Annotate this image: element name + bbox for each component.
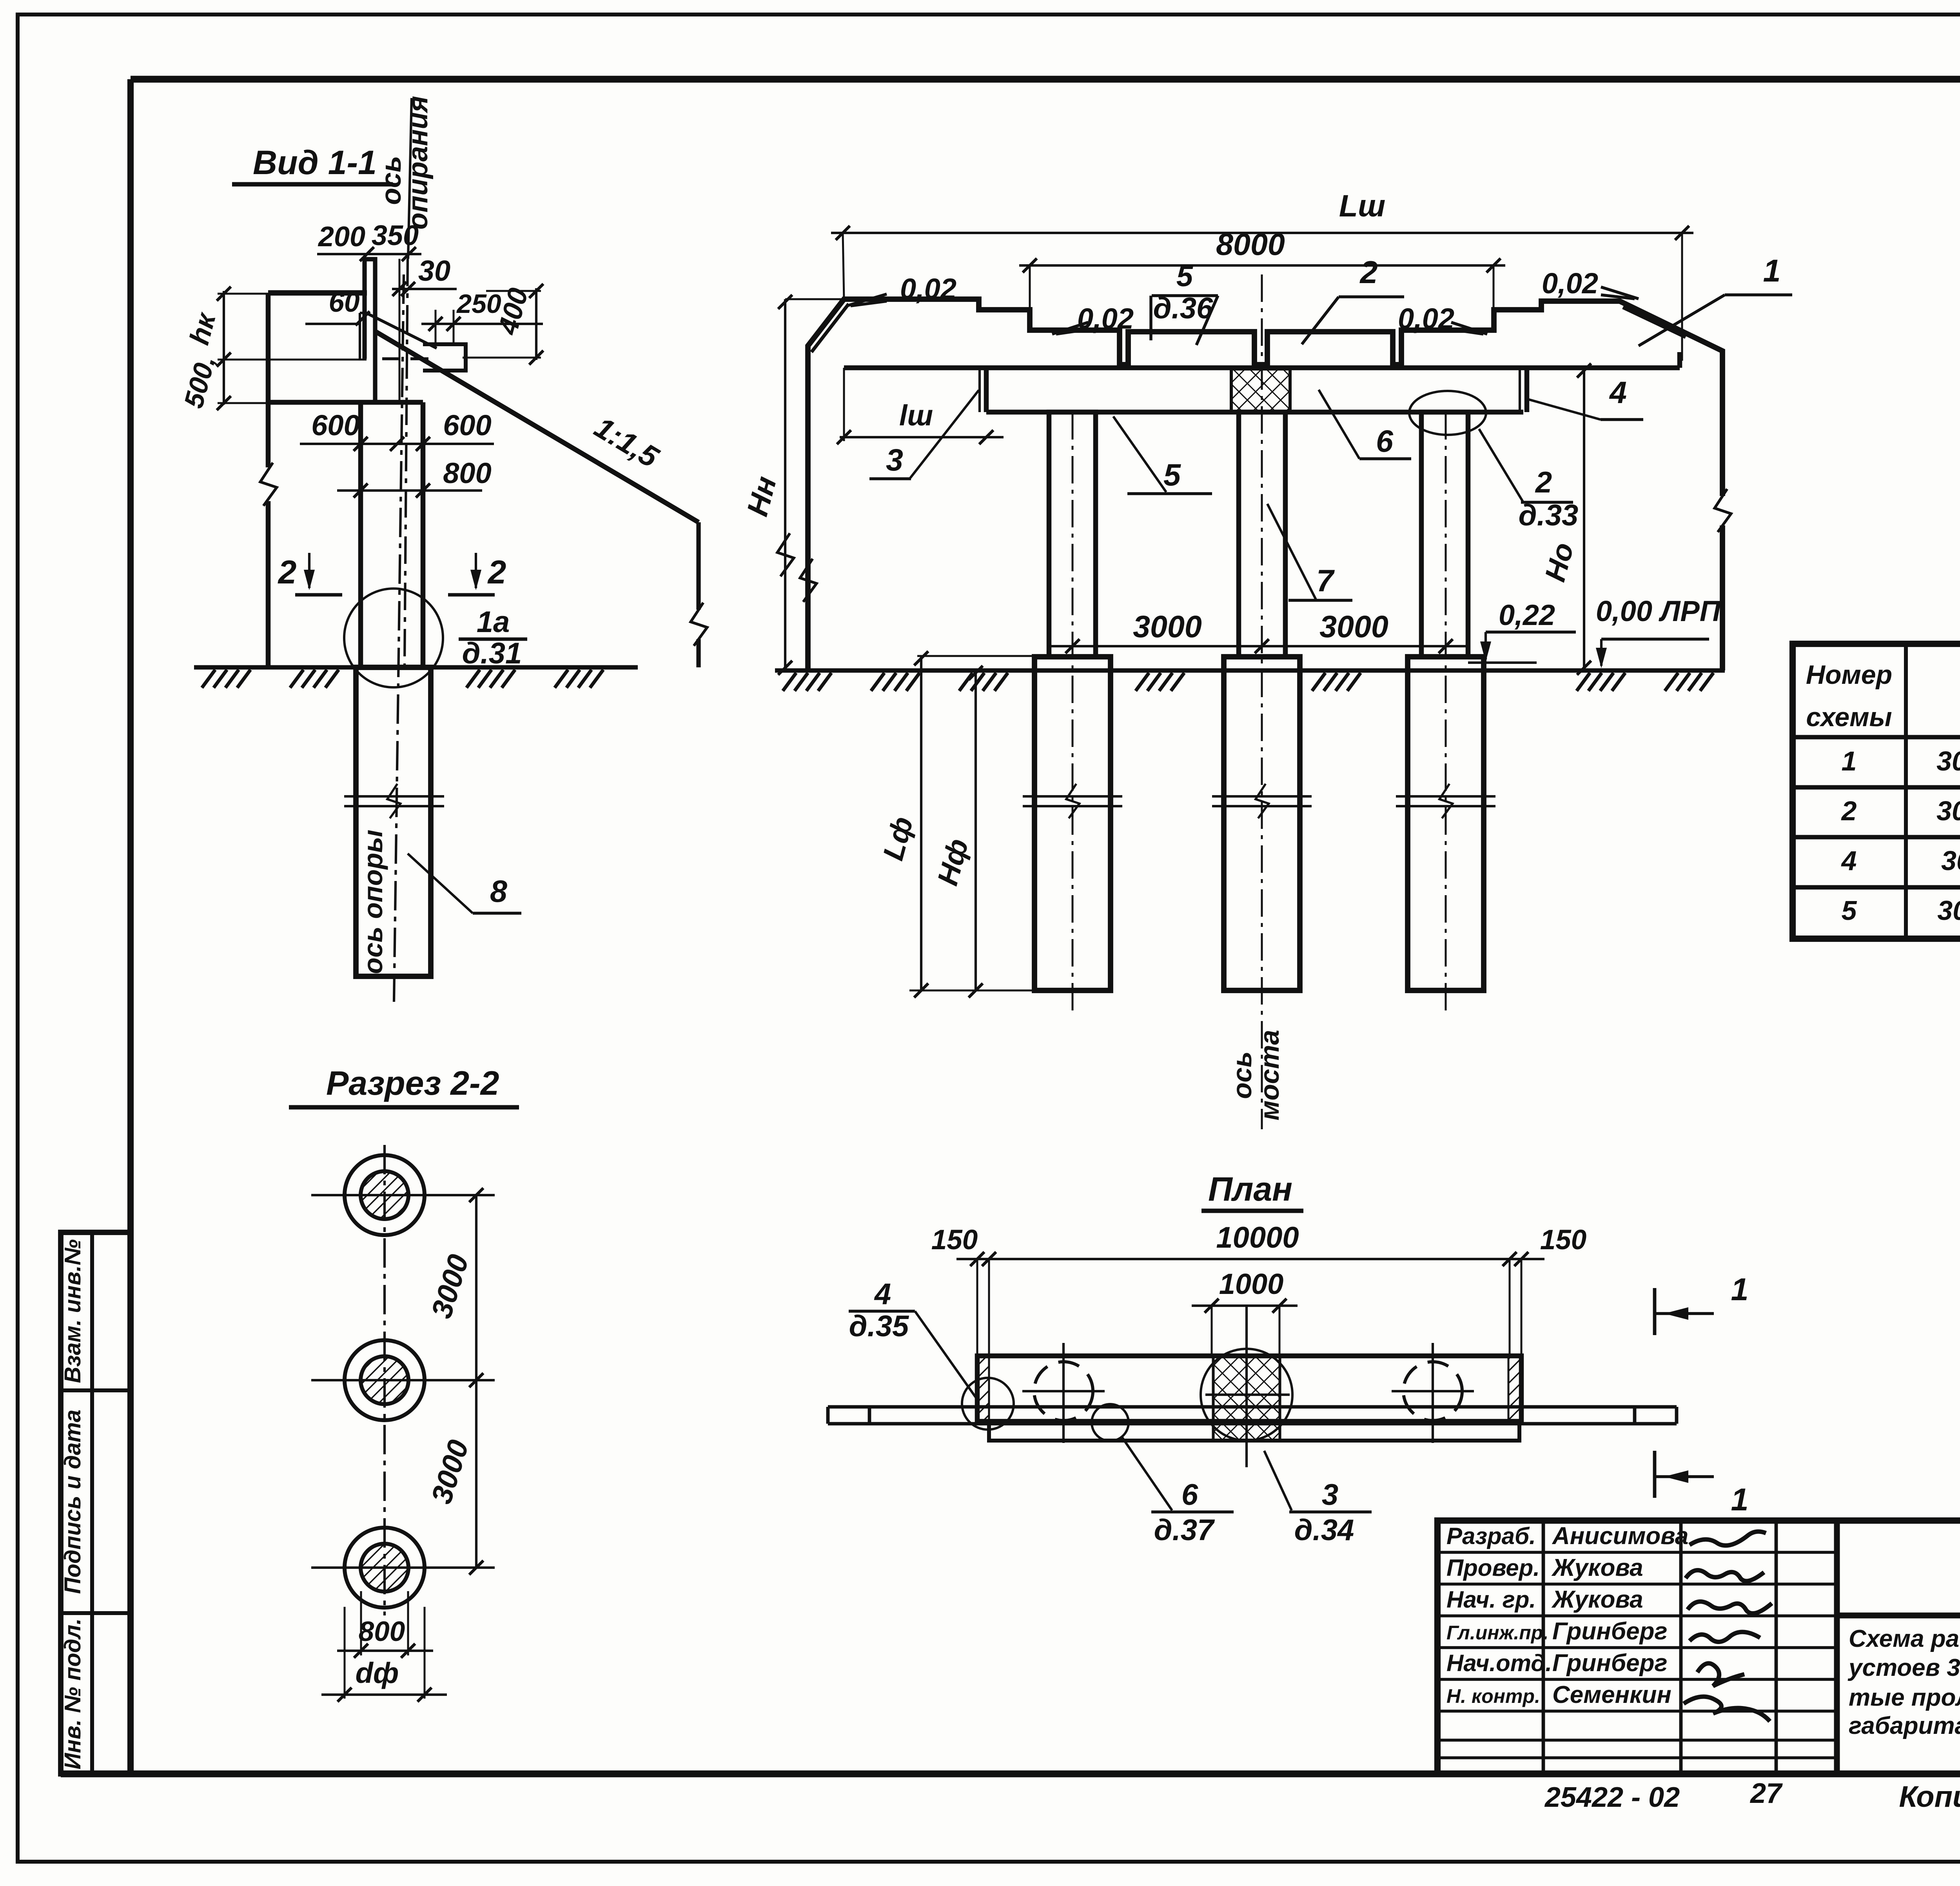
dim Lf [920,656,922,990]
svg-text:Номер: Номер [1806,660,1892,690]
left margin stack [61,1232,131,1774]
svg-text:0,02: 0,02 [1542,267,1598,300]
svg-text:1: 1 [1763,253,1780,289]
svg-text:5: 5 [1176,260,1194,293]
dim Nn [784,299,786,670]
section marks 1-1 [1653,1288,1657,1335]
schema table [1793,644,1960,939]
svg-text:2: 2 [1359,255,1377,290]
svg-text:Семенкин: Семенкин [1552,1681,1671,1708]
svg-text:27: 27 [1749,1778,1783,1809]
svg-text:Вид 1-1: Вид 1-1 [253,144,377,182]
pile below ground [356,667,431,976]
svg-text:1: 1 [1842,746,1857,776]
pile section circle 3 [345,1528,425,1608]
dim 250 [421,323,543,325]
svg-text:схемы: схемы [1806,702,1892,732]
svg-text:250: 250 [456,289,501,319]
svg-text:Жукова: Жукова [1551,1586,1643,1613]
svg-text:5: 5 [1842,895,1857,926]
svg-text:2: 2 [1535,466,1552,499]
small node circle 6 [1092,1404,1129,1441]
dim 3000 vertical [475,1195,477,1568]
nasadka bottom [268,400,423,405]
dim 1000 [1192,1305,1298,1307]
dim 10000 / 150 [956,1258,1544,1260]
main outline: nasadka block [268,290,367,296]
pile section circle 1 [345,1155,425,1235]
svg-text:План: План [1208,1170,1292,1208]
svg-text:Жукова: Жукова [1551,1554,1643,1581]
svg-text:30: 30 [418,254,450,287]
svg-text:0,02: 0,02 [900,273,956,305]
embankment slope 1:1.5 [375,331,699,522]
hatched ends [976,1356,989,1421]
dim hk / 500 [223,291,225,405]
svg-text:д.36: д.36 [1153,292,1213,325]
svg-text:устоев 30КВ Lш. Нн под ребрис-: устоев 30КВ Lш. Нн под ребрис- [1847,1654,1960,1681]
svg-text:2: 2 [278,554,297,591]
pile axis vertical [383,1145,386,1615]
svg-text:4: 4 [1609,375,1627,410]
bearing pad (hatched) [1231,369,1290,412]
svg-text:0,00 ЛРП: 0,00 ЛРП [1596,595,1721,627]
svg-text:Подпись и дата: Подпись и дата [60,1410,85,1594]
svg-text:тые пролетные строения с: тые пролетные строения с [1849,1684,1960,1711]
svg-text:д.34: д.34 [1294,1514,1354,1547]
svg-text:1000: 1000 [1219,1268,1284,1300]
svg-text:Взам. инв.№: Взам. инв.№ [60,1239,85,1383]
svg-text:Разрез 2-2: Разрез 2-2 [326,1065,499,1102]
svg-text:Нач.отд.: Нач.отд. [1446,1650,1552,1676]
dim Nf [975,670,977,990]
svg-text:800: 800 [443,457,491,489]
bearing pad plan (hatched) [1213,1356,1280,1441]
left end node circle [962,1378,1014,1430]
svg-text:600: 600 [443,409,491,442]
svg-text:3000: 3000 [1133,609,1202,644]
svg-text:0,22: 0,22 [1499,599,1555,631]
svg-text:6: 6 [1181,1478,1198,1512]
svg-text:2: 2 [487,554,506,591]
svg-text:30КВ 145.80 -1 -ф: 30КВ 145.80 -1 -ф [1937,895,1960,926]
dim 8000 [1019,264,1505,267]
svg-text:0,02: 0,02 [1398,302,1454,335]
svg-text:10000: 10000 [1216,1221,1299,1254]
dim 800 [337,489,482,492]
svg-text:габаритами Г-8+2×0,75;: габаритами Г-8+2×0,75; [1849,1712,1960,1739]
svg-text:30КВ 130.80-1б-ф: 30КВ 130.80-1б-ф [1936,796,1960,826]
svg-text:3: 3 [1322,1478,1338,1512]
svg-text:4: 4 [874,1277,891,1311]
shkaf wall [365,259,375,402]
cap top line [844,365,1680,371]
svg-text:8000: 8000 [1216,227,1285,262]
svg-text:Гринберг: Гринберг [1552,1650,1668,1677]
dim df [344,1607,346,1699]
svg-text:д.33: д.33 [1519,499,1579,532]
dim No [1583,368,1585,670]
svg-text:Анисимова: Анисимова [1552,1523,1688,1550]
svg-text:2: 2 [1841,796,1857,826]
svg-text:150: 150 [931,1225,978,1256]
svg-text:5: 5 [1163,457,1181,492]
pile section circle 2 [345,1340,425,1420]
svg-text:25422 - 02: 25422 - 02 [1544,1782,1680,1813]
ground line view 1-1 [194,665,638,669]
dim Lsh [831,232,1693,234]
svg-text:ось опоры: ось опоры [358,830,388,974]
svg-text:3000: 3000 [1319,609,1388,644]
svg-text:д.37: д.37 [1154,1514,1215,1547]
inner drawing frame [131,76,1960,83]
svg-text:д.31: д.31 [462,637,522,670]
svg-text:4: 4 [1841,845,1857,876]
lower band [989,1424,1519,1441]
svg-text:Гл.инж.пр.: Гл.инж.пр. [1446,1622,1548,1644]
dim 600 600 [300,443,494,445]
bearing axis line [408,98,412,259]
svg-text:30КВ 145.60-1 -ф: 30КВ 145.60-1 -ф [1941,845,1960,876]
svg-text:800: 800 [359,1616,405,1647]
beam strip [828,1405,1677,1409]
abutment cap outline [808,299,1722,670]
svg-text:Инв. № подл.: Инв. № подл. [60,1618,85,1770]
dim 30 [392,288,457,290]
svg-text:Разраб.: Разраб. [1446,1523,1536,1549]
hidden columns (dashed circles) [1034,1362,1093,1421]
svg-text:dф: dф [356,1657,399,1689]
svg-text:ось: ось [1227,1051,1257,1099]
dim 200 350 [317,253,421,255]
svg-text:1: 1 [1731,1272,1748,1307]
columns [1049,412,1096,657]
node circle 1a [344,589,443,687]
column centerlines [1072,412,1074,1012]
svg-text:600: 600 [311,409,359,442]
slope double lines [811,304,849,352]
dim lsh [840,436,1004,438]
svg-text:8: 8 [490,874,507,908]
svg-text:150: 150 [1540,1225,1586,1256]
svg-text:1а: 1а [477,605,510,639]
svg-text:lш: lш [899,399,933,432]
svg-text:д.35: д.35 [849,1310,909,1343]
node ellipse [1409,391,1486,435]
svg-text:опирания: опирания [403,96,434,229]
svg-text:моста: моста [1254,1030,1285,1120]
ground line elevation [775,668,1725,672]
dim 400 [535,288,537,360]
svg-text:200: 200 [318,221,365,253]
svg-text:350: 350 [372,220,419,251]
svg-text:30КВ 130.60-1б-ф: 30КВ 130.60-1б-ф [1936,746,1960,776]
svg-text:1: 1 [1731,1482,1748,1517]
svg-text:Схема расположения элементов: Схема расположения элементов [1849,1625,1960,1652]
cap band bottom [986,410,1523,415]
hidden dashed level [247,359,365,361]
svg-text:Нач. гр.: Нач. гр. [1446,1586,1536,1613]
svg-text:Гринберг: Гринберг [1552,1618,1668,1645]
svg-text:Lш: Lш [1339,188,1386,223]
svg-text:7: 7 [1316,563,1335,598]
svg-text:Копировал: Копировал [1899,1780,1960,1813]
svg-text:3: 3 [886,442,903,477]
dim 800 bottom [360,1591,362,1655]
title block frame [1437,1521,1960,1774]
svg-text:Н. контр.: Н. контр. [1446,1685,1540,1707]
signatures [1690,1532,1766,1546]
column axis [394,274,404,1002]
svg-text:Провер.: Провер. [1446,1555,1540,1581]
svg-text:6: 6 [1376,423,1394,458]
cap in plan [977,1356,1521,1421]
bearing shelf right [423,344,466,371]
footings / piles [1034,657,1111,990]
dim 3000 3000 [1051,645,1466,647]
column [358,402,363,667]
